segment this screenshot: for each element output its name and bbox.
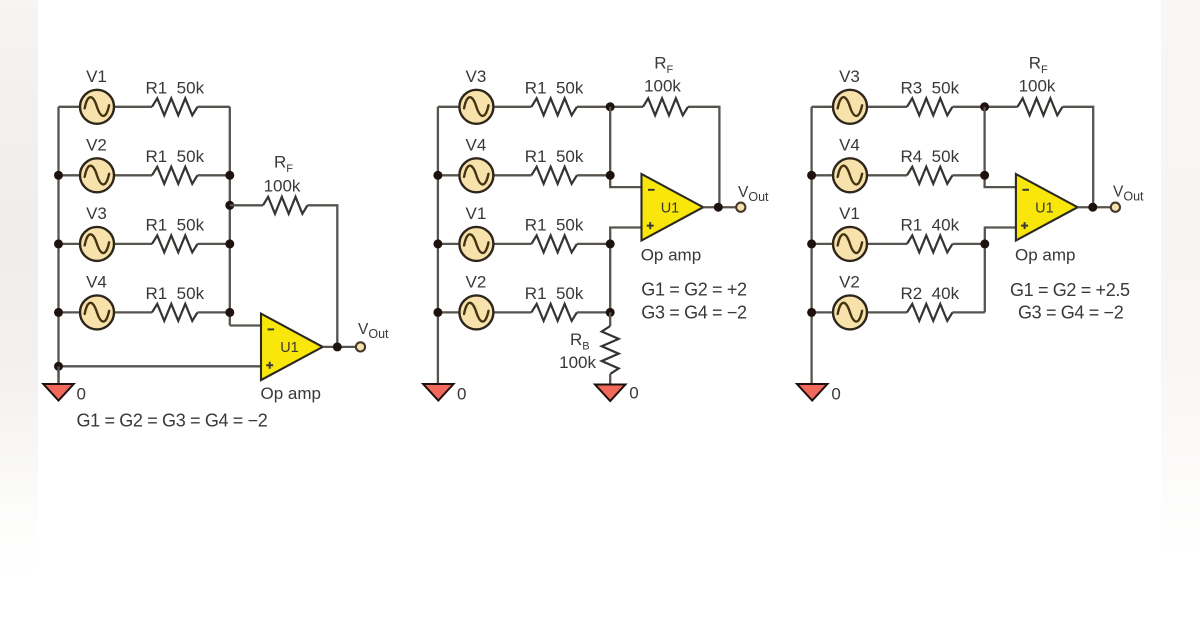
wire inverting input (left circuit) xyxy=(230,324,261,326)
junction V2 RB (middle circuit) xyxy=(606,308,615,317)
source V1 (left circuit) xyxy=(80,90,114,124)
wire V1 row (left circuit) xyxy=(59,106,230,108)
source V3 (left circuit) xyxy=(80,227,114,261)
svg-text:RF: RF xyxy=(654,54,673,77)
junction summing bus (left circuit) xyxy=(225,171,234,180)
resistor RF 100k (left circuit) xyxy=(263,197,308,214)
svg-text:Op amp: Op amp xyxy=(261,384,321,403)
junction V1 noninverting (middle circuit) xyxy=(606,239,615,248)
wire inverting branch (right circuit) xyxy=(985,107,1016,187)
svg-text:100k: 100k xyxy=(264,177,301,196)
wire RF feedback top (middle circuit) xyxy=(610,107,719,207)
svg-text:RF: RF xyxy=(274,153,293,176)
resistor R1 50k row V1 (middle circuit) xyxy=(531,235,577,252)
svg-text:R1 50k: R1 50k xyxy=(525,215,584,234)
resistor R1 50k row V4 (middle circuit) xyxy=(531,167,577,184)
junction V1 noninverting (right circuit) xyxy=(980,239,989,248)
svg-text:R3 50k: R3 50k xyxy=(901,78,960,97)
wire V4 row (left circuit) xyxy=(59,311,230,313)
svg-text:V3: V3 xyxy=(86,204,107,223)
op-amp U1 (right circuit) xyxy=(1016,174,1078,241)
wire output (middle circuit) xyxy=(703,206,737,208)
junction left bus (right circuit) xyxy=(807,239,816,248)
svg-text:V3: V3 xyxy=(839,67,860,86)
junction left bus (middle circuit) xyxy=(433,171,442,180)
resistor R1 50k row V3 (middle circuit) xyxy=(531,98,577,115)
svg-text:G3 = G4 = −2: G3 = G4 = −2 xyxy=(641,302,747,322)
svg-text:R1 50k: R1 50k xyxy=(525,78,584,97)
svg-text:0: 0 xyxy=(457,385,466,404)
svg-text:V1: V1 xyxy=(466,204,487,223)
junction left bus (right circuit) xyxy=(807,308,816,317)
wire V4 row (middle circuit) xyxy=(438,174,610,176)
svg-text:RF: RF xyxy=(1029,54,1048,77)
svg-text:R1 50k: R1 50k xyxy=(146,147,205,166)
resistor R1 50k row V2 (left circuit) xyxy=(152,167,198,184)
junction output node (left circuit) xyxy=(333,342,342,351)
resistor R1 50k row V3 (left circuit) xyxy=(152,235,198,252)
op-amp U1 (left circuit) xyxy=(261,314,323,381)
svg-text:R1 50k: R1 50k xyxy=(525,147,584,166)
wire ground stub (left circuit) xyxy=(57,366,59,384)
wire RB top stub (middle circuit) xyxy=(609,312,611,326)
source V4 (right circuit) xyxy=(833,158,867,192)
source V3 (middle circuit) xyxy=(459,90,493,124)
svg-text:V3: V3 xyxy=(466,67,487,86)
svg-text:100k: 100k xyxy=(1019,77,1056,96)
svg-text:R4 50k: R4 50k xyxy=(901,147,960,166)
resistor RB 100k (middle circuit) xyxy=(602,326,619,374)
svg-text:0: 0 xyxy=(77,385,86,404)
svg-text:U1: U1 xyxy=(280,340,299,356)
resistor RF 100k (middle circuit) xyxy=(643,98,688,115)
ground (left circuit) xyxy=(43,384,73,401)
svg-text:V2: V2 xyxy=(839,273,860,292)
junction V4 inverting (right circuit) xyxy=(980,171,989,180)
svg-text:VOut: VOut xyxy=(1113,183,1144,203)
wire V3 row (right circuit) xyxy=(812,106,985,108)
resistor R3 50k (right circuit) xyxy=(907,98,953,115)
source V3 (right circuit) xyxy=(833,90,867,124)
junction summing bus (left circuit) xyxy=(225,239,234,248)
junction RF tap (right circuit) xyxy=(980,102,989,111)
wire V4 row (right circuit) xyxy=(812,174,985,176)
svg-text:RB: RB xyxy=(570,330,590,353)
svg-text:G1 = G2 = G3 = G4 = −2: G1 = G2 = G3 = G4 = −2 xyxy=(77,411,268,431)
svg-text:100k: 100k xyxy=(644,77,681,96)
wire V2 row (left circuit) xyxy=(59,174,230,176)
svg-text:V4: V4 xyxy=(86,273,107,292)
svg-text:V2: V2 xyxy=(466,273,487,292)
svg-text:R1 50k: R1 50k xyxy=(146,78,205,97)
junction left bus (right circuit) xyxy=(807,171,816,180)
svg-text:VOut: VOut xyxy=(358,321,389,341)
svg-text:V2: V2 xyxy=(86,136,107,155)
wire V1 row (right circuit) xyxy=(812,243,985,245)
terminal VOut (right circuit) xyxy=(1111,203,1120,212)
source V4 (middle circuit) xyxy=(459,158,493,192)
op-amp U1 (middle circuit) xyxy=(642,174,704,241)
svg-text:U1: U1 xyxy=(661,200,680,216)
svg-text:R1 50k: R1 50k xyxy=(146,284,205,303)
svg-text:G1 = G2 = +2: G1 = G2 = +2 xyxy=(641,279,747,299)
wire left bus (right circuit) xyxy=(810,107,812,384)
source V2 (left circuit) xyxy=(80,158,114,192)
svg-text:V4: V4 xyxy=(839,136,860,155)
source V1 (middle circuit) xyxy=(459,227,493,261)
svg-text:G3 = G4 = −2: G3 = G4 = −2 xyxy=(1018,302,1124,322)
junction ground wire (left circuit) xyxy=(54,362,63,371)
svg-text:R1 50k: R1 50k xyxy=(146,215,205,234)
junction summing bus RF tap (left circuit) xyxy=(225,201,234,210)
junction output node (middle circuit) xyxy=(714,203,723,212)
wire inverting branch (middle circuit) xyxy=(610,107,641,187)
ground RB (middle circuit) xyxy=(595,385,625,402)
ground (middle circuit) xyxy=(423,384,453,401)
junction output node (right circuit) xyxy=(1088,203,1097,212)
resistor R4 50k (right circuit) xyxy=(907,167,953,184)
wire V2 row (middle circuit) xyxy=(438,311,610,313)
source V2 (middle circuit) xyxy=(459,295,493,329)
svg-text:G1 = G2 = +2.5: G1 = G2 = +2.5 xyxy=(1010,280,1130,300)
source V2 (right circuit) xyxy=(833,295,867,329)
resistor R1 50k row V1 (left circuit) xyxy=(152,98,198,115)
wire noninverting branch (right circuit) xyxy=(985,228,1016,313)
resistor R1 50k row V2 (middle circuit) xyxy=(531,304,577,321)
junction left bus (left circuit) xyxy=(54,239,63,248)
terminal VOut (middle circuit) xyxy=(736,203,745,212)
svg-text:Op amp: Op amp xyxy=(641,246,701,265)
svg-text:VOut: VOut xyxy=(738,184,769,204)
svg-text:R1 40k: R1 40k xyxy=(901,215,960,234)
wire left bus (left circuit) xyxy=(57,107,59,384)
wire V1 row (middle circuit) xyxy=(438,243,610,245)
svg-text:R2 40k: R2 40k xyxy=(901,284,960,303)
resistor R1 40k (right circuit) xyxy=(907,235,953,252)
svg-text:V1: V1 xyxy=(839,204,860,223)
terminal VOut (left circuit) xyxy=(356,342,365,351)
svg-text:R1 50k: R1 50k xyxy=(525,284,584,303)
source V1 (right circuit) xyxy=(833,227,867,261)
svg-text:0: 0 xyxy=(831,385,840,404)
svg-text:0: 0 xyxy=(629,384,638,403)
junction left bus (middle circuit) xyxy=(433,308,442,317)
junction left bus (middle circuit) xyxy=(433,239,442,248)
wire V3 row (middle circuit) xyxy=(438,106,610,108)
junction V4 inverting (middle circuit) xyxy=(606,171,615,180)
svg-text:V4: V4 xyxy=(466,136,487,155)
wire V3 row (left circuit) xyxy=(59,243,230,245)
junction summing bus (left circuit) xyxy=(225,308,234,317)
wire output (left circuit) xyxy=(323,346,357,348)
wire RF feedback (left circuit) xyxy=(230,205,337,347)
svg-text:Op amp: Op amp xyxy=(1015,246,1075,265)
wire RF feedback top (right circuit) xyxy=(985,107,1094,207)
wire output (right circuit) xyxy=(1078,206,1112,208)
junction RF tap (middle circuit) xyxy=(606,102,615,111)
resistor RF 100k (right circuit) xyxy=(1018,98,1063,115)
wire RB ground stub (middle circuit) xyxy=(609,374,611,385)
source V4 (left circuit) xyxy=(80,295,114,329)
svg-text:V1: V1 xyxy=(86,67,107,86)
wire summing bus (left circuit) xyxy=(229,107,231,326)
svg-text:100k: 100k xyxy=(559,353,596,372)
junction left bus (left circuit) xyxy=(54,171,63,180)
wire noninverting branch (middle circuit) xyxy=(610,228,641,313)
wire left bus (middle circuit) xyxy=(437,107,439,384)
resistor R1 50k row V4 (left circuit) xyxy=(152,304,198,321)
wire noninverting input (left circuit) xyxy=(59,365,262,367)
svg-text:U1: U1 xyxy=(1035,200,1054,216)
junction left bus (left circuit) xyxy=(54,308,63,317)
resistor R2 40k (right circuit) xyxy=(907,304,953,321)
ground (right circuit) xyxy=(797,384,827,401)
wire V2 row (right circuit) xyxy=(812,311,985,313)
